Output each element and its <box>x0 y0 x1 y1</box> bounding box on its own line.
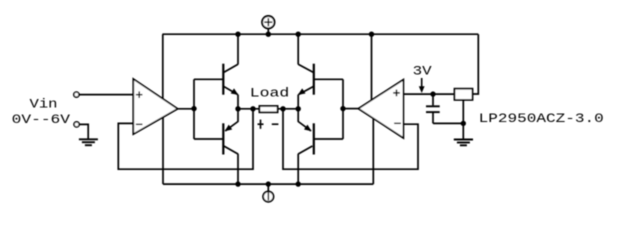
wire U1 output <box>178 108 194 110</box>
junction node B <box>296 106 301 111</box>
wire Vin to op-amp U1 non-inverting input <box>79 94 133 96</box>
junction load left sense <box>250 106 255 111</box>
wire top positive supply rail <box>162 33 478 35</box>
junction load right sense <box>280 106 285 111</box>
ground regulator <box>454 140 473 146</box>
svg-text:Vin: Vin <box>30 97 58 112</box>
wire Q3 collector to top rail <box>297 34 299 64</box>
wire node A to Q2 emitter <box>237 109 239 122</box>
transistor Q2 (PNP) <box>223 122 238 155</box>
junction top rail U2 supply <box>369 32 374 37</box>
wire regulator input pin to top rail <box>473 34 479 94</box>
junction bottom rail at minus terminal <box>266 181 271 186</box>
wire base of Q2 <box>194 138 223 140</box>
junction U2 output at base riser <box>340 106 345 111</box>
wire U2 negative supply tap to bottom rail <box>372 118 374 184</box>
junction regulator ground node <box>461 121 466 126</box>
wire U1 negative supply tap to bottom rail <box>162 117 164 184</box>
wire U2 positive supply tap to top rail <box>371 34 373 100</box>
junction bottom rail Q4 collector <box>296 181 301 186</box>
wire base riser right pair <box>342 79 344 139</box>
wire Q2 collector to bottom rail <box>237 154 239 184</box>
wire base of Q4 <box>314 138 343 140</box>
capacitor bypass <box>426 94 440 123</box>
transistor Q4 (PNP) <box>298 122 314 155</box>
svg-text:Load: Load <box>250 85 289 100</box>
ground input return <box>79 139 98 145</box>
wire U1 positive supply tap to top rail <box>162 34 164 99</box>
wire Q4 collector to bottom rail <box>297 154 299 184</box>
junction bottom rail Q2 collector <box>235 181 240 186</box>
junction node A <box>235 106 240 111</box>
wire base of Q3 <box>314 78 343 80</box>
op-amp U1 <box>133 79 177 134</box>
wire regulator ground pin <box>462 100 464 124</box>
regulator U3 LP2950 <box>455 89 473 100</box>
wire capacitor to regulator ground pin <box>433 122 463 124</box>
wire ground stem <box>462 123 464 139</box>
wire node B to Q4 emitter <box>297 109 299 122</box>
label load polarity minus <box>272 123 279 125</box>
transistor Q3 (NPN) <box>298 64 314 95</box>
wire return terminal to ground <box>79 124 88 139</box>
transistor Q1 (NPN) <box>223 64 238 95</box>
junction top rail Q1 collector <box>235 32 240 37</box>
wire U2 output <box>343 108 358 110</box>
arrow 3V pointer <box>419 78 425 93</box>
wire Q1 collector to top rail <box>237 34 239 64</box>
resistor load <box>259 106 277 112</box>
input terminal return <box>74 122 79 127</box>
wire bottom negative supply rail <box>163 183 373 185</box>
wire U2 non-inverting input to regulator output <box>403 93 454 95</box>
wire load to node B <box>278 108 299 110</box>
junction 3V node <box>430 91 435 96</box>
wire Q1 emitter to load node A <box>237 95 239 109</box>
input terminal Vin <box>74 92 79 97</box>
wire base of Q1 <box>194 78 223 80</box>
label load polarity plus <box>258 120 264 129</box>
junction U1 output at base riser <box>191 106 196 111</box>
op-amp U2 <box>358 80 403 138</box>
wire base riser left pair <box>193 79 195 139</box>
wire Q3 emitter to node B <box>297 95 299 109</box>
svg-text:LP2950ACZ-3.0: LP2950ACZ-3.0 <box>479 111 604 126</box>
svg-text:0V--6V: 0V--6V <box>12 112 71 127</box>
junction top rail at plus terminal <box>266 32 271 37</box>
node A wire to load <box>238 108 259 110</box>
junction top rail Q3 collector <box>296 32 301 37</box>
power terminal minus (circle with bar) <box>263 184 273 202</box>
wire U1 inverting input feedback <box>118 109 253 169</box>
power terminal plus (circle with plus) <box>262 16 274 34</box>
svg-text:3V: 3V <box>413 64 432 79</box>
wire U2 inverting input feedback <box>283 109 418 169</box>
